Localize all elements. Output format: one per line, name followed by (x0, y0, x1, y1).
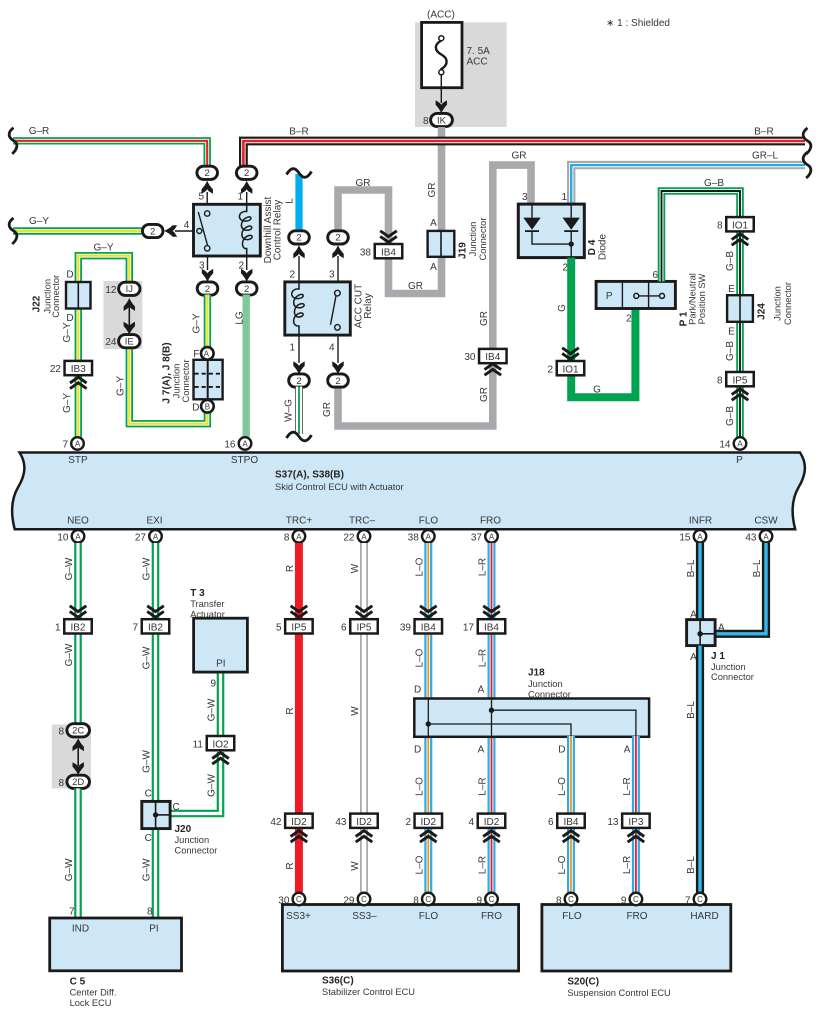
svg-text:Junction: Junction (468, 222, 478, 257)
wire G-B IO1 to J24 (736, 231, 744, 297)
svg-text:GR: GR (512, 151, 527, 162)
svg-text:W: W (350, 563, 361, 573)
label box 2 ID2 (405, 814, 442, 828)
svg-text:2C: 2C (72, 726, 84, 737)
wire B-L J1 down to S20 HARD (696, 646, 704, 893)
svg-text:PI: PI (149, 924, 158, 935)
svg-text:FRO: FRO (626, 911, 647, 922)
junction connector J22 (32, 270, 91, 325)
svg-text:16: 16 (224, 440, 236, 451)
svg-text:Diode: Diode (597, 234, 608, 261)
svg-text:L–R: L–R (478, 558, 489, 576)
svg-text:30: 30 (278, 895, 290, 906)
svg-text:27: 27 (135, 532, 147, 543)
svg-text:TRC–: TRC– (349, 516, 376, 527)
svg-text:12: 12 (105, 285, 117, 296)
svg-text:F: F (193, 349, 199, 360)
svg-text:∗ 1 : Shielded: ∗ 1 : Shielded (606, 18, 670, 29)
svg-text:S37(A), S38(B): S37(A), S38(B) (275, 469, 344, 480)
svg-text:GR: GR (479, 387, 490, 402)
svg-text:2: 2 (547, 364, 553, 375)
connector oval 2 (G-Y to relay pin 4) (142, 224, 163, 237)
svg-text:8: 8 (58, 726, 64, 737)
svg-text:D: D (66, 270, 73, 281)
svg-text:IO2: IO2 (212, 739, 229, 750)
svg-text:J20: J20 (175, 824, 192, 835)
chevron into 6 IP5 (356, 606, 373, 617)
svg-text:2: 2 (244, 284, 249, 295)
label box 13 IP3 (607, 814, 649, 828)
pin 29 C SS3- (343, 893, 370, 907)
pin 4 line of downhill relay (175, 230, 199, 232)
svg-text:FLO: FLO (562, 911, 582, 922)
connector oval IJ pin 12 (105, 282, 140, 296)
svg-text:P: P (736, 455, 743, 466)
arrow down to pin4 oval (332, 361, 343, 374)
svg-text:9: 9 (210, 679, 216, 690)
svg-text:J24: J24 (756, 303, 767, 320)
svg-text:L–O: L–O (414, 855, 425, 874)
wire G-Y left horizontal to oval 2 (13, 227, 143, 234)
svg-text:L–O: L–O (557, 855, 568, 874)
svg-text:CSW: CSW (754, 516, 778, 527)
svg-text:A: A (430, 218, 437, 229)
label box 8 IP5 (717, 372, 754, 386)
svg-text:A: A (75, 440, 81, 449)
connector oval IK pin 8 (423, 113, 452, 127)
wire G-W NEO column lower to C5 IND (74, 788, 82, 918)
svg-text:1: 1 (561, 192, 567, 203)
svg-text:7: 7 (69, 907, 75, 918)
svg-text:42: 42 (270, 817, 282, 828)
svg-text:W: W (350, 861, 361, 871)
chevron into 17 IB4 (483, 606, 500, 617)
svg-text:C: C (568, 895, 574, 904)
chevron into 13 IP3 (628, 831, 645, 842)
svg-text:G–W: G–W (207, 698, 218, 721)
svg-text:8: 8 (717, 375, 723, 386)
svg-text:B–R: B–R (289, 127, 308, 138)
label box 1 IB2 (55, 619, 92, 633)
svg-text:A: A (478, 744, 485, 755)
double arrow between 2C and 2D (73, 738, 84, 775)
wire G-Y from IJ up and left down into J22 (78, 256, 129, 284)
svg-text:9: 9 (476, 895, 482, 906)
svg-text:8: 8 (284, 532, 290, 543)
wire GR from ACC CUT relay pin4 to diode pin3 via 30 IB4 (338, 165, 531, 426)
transfer actuator T3 box (190, 588, 247, 672)
pin 9 C FRO S20 (621, 893, 642, 907)
svg-text:Control Relay: Control Relay (273, 200, 284, 261)
svg-text:IE: IE (125, 337, 134, 348)
arrow into oval 5-side (202, 181, 213, 194)
svg-text:ID2: ID2 (421, 817, 437, 828)
pin 30 C SS3+ (278, 893, 305, 907)
relay pin 2 lead (246, 256, 248, 270)
fuse element symbol (436, 41, 447, 70)
svg-text:38: 38 (408, 532, 420, 543)
svg-text:8: 8 (717, 220, 723, 231)
svg-text:IB2: IB2 (70, 623, 85, 634)
svg-text:17: 17 (463, 623, 475, 634)
label box 39 IB4 (400, 619, 442, 633)
svg-text:L–O: L–O (414, 648, 425, 667)
svg-text:3: 3 (329, 270, 335, 281)
svg-text:2: 2 (150, 226, 155, 237)
wire B-L INFR column upper (696, 543, 704, 621)
svg-text:2D: 2D (72, 777, 84, 788)
svg-text:G–Y: G–Y (29, 216, 49, 227)
pin 8 A TRC+ (284, 530, 305, 543)
svg-text:37: 37 (471, 532, 483, 543)
label box 8 IO1 (717, 217, 754, 231)
svg-text:G–Y: G–Y (62, 393, 73, 413)
svg-text:FLO: FLO (419, 516, 439, 527)
wire L-R S20 FRO column (632, 736, 640, 893)
svg-text:D: D (558, 744, 565, 755)
junction connector J20 (142, 789, 218, 856)
pin 37 A FRO (471, 530, 498, 543)
wire G-B IP5 to pin 14 (736, 385, 744, 438)
pin 1 lead (298, 335, 300, 363)
arrow into oval below pin 3 (202, 269, 213, 282)
wire GR-L horizontal from diode pin1 to right (571, 165, 805, 205)
svg-text:2: 2 (296, 376, 301, 387)
svg-text:39: 39 (400, 623, 412, 634)
wire G-Y relay pin3 down to J7 J8 (204, 295, 211, 349)
svg-text:2: 2 (296, 233, 301, 244)
svg-text:2: 2 (205, 168, 210, 179)
junction connector J1 (687, 620, 754, 682)
svg-text:A: A (624, 744, 631, 755)
svg-text:6: 6 (652, 270, 658, 281)
svg-text:G–B: G–B (725, 251, 736, 271)
diode D4 box (518, 204, 608, 260)
svg-text:L–O: L–O (557, 777, 568, 796)
svg-text:G–B: G–B (725, 406, 736, 426)
svg-text:B–L: B–L (752, 559, 763, 577)
svg-text:E: E (728, 284, 735, 295)
svg-text:A: A (204, 349, 210, 358)
wire G-W T3 to IO2 (217, 672, 225, 737)
svg-text:STPO: STPO (231, 455, 258, 466)
svg-text:G–B: G–B (704, 178, 724, 189)
wire G-R horizontal (13, 141, 207, 167)
svg-text:IP3: IP3 (628, 817, 643, 828)
pin 8 C FLO S36 (413, 893, 434, 907)
chevron into 42 ID2 (291, 831, 308, 842)
svg-text:NEO: NEO (67, 516, 89, 527)
label box 30 IB4 (464, 349, 506, 363)
arrow into oval 1-side (241, 181, 252, 194)
arrow up to pin2 oval (293, 245, 304, 258)
svg-text:J22: J22 (32, 295, 43, 312)
svg-text:Actuator: Actuator (190, 609, 225, 619)
svg-text:8: 8 (58, 778, 64, 789)
wire B-L CSW column into J1 (716, 543, 766, 634)
svg-text:L–R: L–R (478, 777, 489, 795)
junction connector J19 (428, 218, 488, 273)
svg-text:7: 7 (62, 440, 68, 451)
label box 2 IO1 (547, 361, 584, 375)
svg-text:W: W (350, 706, 361, 716)
svg-text:GR: GR (427, 183, 438, 198)
connector oval 2 at ACC CUT pin2 (289, 231, 310, 244)
label box 43 ID2 (335, 814, 377, 828)
svg-text:C: C (425, 895, 431, 904)
svg-text:C: C (633, 895, 639, 904)
connector oval 2 below relay pin 3 (197, 282, 218, 295)
pin 9 C FRO S36 (476, 893, 497, 907)
svg-text:G–W: G–W (64, 858, 75, 881)
arrow into oval 2 pointing left (164, 225, 177, 236)
wire W-G below pin1 oval (295, 387, 303, 435)
wire L blue into ACC CUT relay pin2 (295, 174, 302, 232)
svg-text:10: 10 (57, 532, 69, 543)
svg-text:D: D (66, 313, 73, 324)
relay pin 3 lead (207, 256, 209, 270)
svg-text:8: 8 (556, 895, 562, 906)
svg-text:D: D (414, 684, 421, 695)
svg-text:A: A (153, 533, 159, 542)
svg-text:A: A (426, 533, 432, 542)
connector oval 2 above relay pin 5 (197, 166, 218, 179)
shaded box around IJ IE (104, 281, 143, 349)
wire G-B from P1 pin6 up over to 8 IO1 then down to P pin14 (662, 191, 741, 281)
svg-text:L–O: L–O (414, 777, 425, 796)
pin 38 A FLO (408, 530, 435, 543)
svg-text:13: 13 (607, 817, 619, 828)
svg-text:C: C (145, 789, 152, 800)
svg-text:2: 2 (335, 233, 340, 244)
wire G-B J24 to IP5 (736, 321, 744, 373)
svg-text:Junction: Junction (773, 286, 783, 321)
wire G-W from J20 right to IO2 and T3 (170, 752, 221, 814)
svg-text:22: 22 (50, 364, 62, 375)
svg-text:2: 2 (405, 817, 411, 828)
svg-text:ID2: ID2 (356, 817, 372, 828)
svg-text:Connector: Connector (478, 218, 488, 261)
svg-text:G: G (593, 384, 601, 395)
squiggle L top end (287, 169, 312, 178)
double arrow between IJ and IE (124, 298, 135, 335)
svg-text:14: 14 (719, 440, 731, 451)
pin 15 A INFR (679, 530, 706, 543)
svg-text:Relay: Relay (363, 293, 374, 319)
svg-text:A: A (478, 684, 485, 695)
wire L-O FLO column upper (424, 543, 432, 700)
wire G-Y from J22 down to STP (75, 308, 82, 438)
svg-text:15: 15 (679, 532, 691, 543)
svg-text:A: A (361, 533, 367, 542)
svg-text:INFR: INFR (689, 516, 712, 527)
svg-text:T 3: T 3 (190, 588, 205, 599)
svg-text:G–Y: G–Y (192, 313, 203, 333)
pin 27 A EXI (135, 530, 162, 543)
pin circle B of J8 (201, 400, 214, 413)
pin 8 C FLO S20 (556, 893, 577, 907)
svg-text:Connector: Connector (175, 845, 218, 855)
pin 3 lead (337, 256, 339, 282)
label box 7 IB2 (132, 619, 169, 633)
wire fuse to IK (440, 75, 442, 103)
svg-text:1: 1 (55, 623, 61, 634)
svg-text:1: 1 (289, 343, 295, 354)
pin 14 A P (719, 437, 746, 450)
pin 22 A TRC- (343, 530, 370, 543)
svg-text:Connector: Connector (181, 360, 191, 403)
chevron into 39 IB4 (420, 606, 437, 617)
svg-text:L–R: L–R (622, 777, 633, 795)
svg-text:29: 29 (343, 895, 355, 906)
svg-text:6: 6 (341, 623, 347, 634)
svg-text:7. 5A: 7. 5A (467, 46, 491, 57)
svg-text:J 1: J 1 (711, 651, 725, 662)
junction connector J7(A) J8(B) (161, 342, 222, 413)
svg-text:IB4: IB4 (381, 247, 396, 258)
svg-text:Position SW: Position SW (697, 273, 707, 324)
svg-text:Junction: Junction (171, 364, 181, 399)
svg-text:STP: STP (68, 455, 88, 466)
svg-text:Junction: Junction (711, 662, 746, 672)
connector oval 2C pin 8 (58, 724, 89, 738)
wire G-Y loop J7J8-B down left and up to IE (129, 346, 207, 424)
svg-text:ID2: ID2 (291, 817, 307, 828)
svg-text:SS3+: SS3+ (286, 911, 311, 922)
connector oval 2D pin 8 (58, 775, 89, 789)
svg-text:A: A (763, 533, 769, 542)
svg-text:G–W: G–W (142, 750, 153, 773)
svg-text:Suspension Control ECU: Suspension Control ECU (567, 988, 670, 998)
svg-text:Lock ECU: Lock ECU (70, 998, 112, 1008)
svg-text:Center Diff.: Center Diff. (70, 988, 117, 998)
svg-text:11: 11 (193, 739, 204, 750)
svg-text:IB3: IB3 (71, 364, 86, 375)
connector oval IE pin 24 (105, 335, 140, 349)
label box 17 IB4 (463, 619, 505, 633)
svg-text:S36(C): S36(C) (322, 976, 354, 987)
park/neutral position switch P1 (596, 273, 707, 326)
svg-text:J18: J18 (528, 668, 545, 679)
svg-text:G–W: G–W (207, 774, 218, 797)
label box 11 IO2 (193, 736, 235, 750)
arrow into oval below pin 2 (241, 269, 252, 282)
svg-text:4: 4 (184, 220, 190, 231)
svg-text:A: A (430, 262, 437, 273)
svg-text:43: 43 (335, 817, 347, 828)
svg-text:Junction: Junction (175, 835, 210, 845)
svg-text:FRO: FRO (481, 911, 502, 922)
svg-text:7: 7 (132, 623, 138, 634)
label box 42 ID2 (270, 814, 312, 828)
svg-text:D: D (414, 744, 421, 755)
svg-text:Junction: Junction (528, 679, 563, 689)
svg-text:IND: IND (72, 924, 89, 935)
svg-text:ID2: ID2 (484, 817, 500, 828)
junction connector J18 (414, 668, 649, 737)
chevron into 22 IB3 (70, 377, 87, 388)
svg-text:24: 24 (105, 337, 117, 348)
svg-text:PI: PI (216, 659, 225, 670)
svg-text:HARD: HARD (690, 911, 718, 922)
svg-text:IO1: IO1 (732, 220, 749, 231)
pin 16 A STPO (224, 437, 251, 450)
chevron into 5 IP5 (291, 606, 308, 617)
svg-text:B–L: B–L (686, 559, 697, 577)
connector oval 2 below relay pin 2 (236, 282, 257, 295)
svg-text:GR: GR (356, 178, 371, 189)
svg-text:G–W: G–W (142, 557, 153, 580)
svg-text:SS3–: SS3– (352, 911, 377, 922)
svg-text:L–R: L–R (478, 649, 489, 667)
squiggle GR-L right end (803, 152, 811, 178)
connector oval 2 at ACC CUT pin3 (328, 231, 349, 244)
svg-text:(ACC): (ACC) (427, 10, 455, 21)
wire L-R FRO column lower (488, 736, 496, 893)
svg-text:G: G (557, 304, 568, 312)
svg-text:GR–L: GR–L (752, 151, 779, 162)
downhill assist control relay box (194, 196, 284, 263)
arrow into IK (436, 100, 447, 113)
chevron into 2 ID2 (420, 831, 437, 842)
svg-text:P: P (606, 291, 613, 302)
svg-text:C: C (489, 895, 495, 904)
svg-text:43: 43 (745, 532, 757, 543)
label box 22 IB3 (50, 361, 92, 375)
svg-text:22: 22 (343, 532, 355, 543)
svg-text:EXI: EXI (146, 516, 162, 527)
svg-text:2: 2 (626, 314, 632, 325)
wire B-R horizontal (243, 141, 805, 167)
svg-text:C: C (296, 895, 302, 904)
suspension control ECU S20 box (542, 905, 731, 999)
label box 38 IB4 (360, 244, 402, 258)
chevron into 8 IO1 (732, 234, 749, 245)
relay pin 5 lead (206, 192, 208, 204)
svg-text:IJ: IJ (126, 284, 134, 295)
svg-text:A: A (242, 440, 248, 449)
wire G from diode pin2 to IO1 and P1 pin2 (571, 258, 635, 398)
svg-text:L–R: L–R (622, 856, 633, 874)
svg-text:2: 2 (289, 270, 295, 281)
wire G-W EXI column through J20 to C5 PI (152, 543, 160, 918)
svg-text:G–Y: G–Y (62, 322, 73, 342)
wire GR from downhill-relay-side oval to 38 IB4 and J19 (338, 190, 389, 245)
svg-text:IP5: IP5 (732, 375, 747, 386)
chevron into 43 ID2 (356, 831, 373, 842)
svg-text:IB4: IB4 (484, 623, 499, 634)
svg-text:R: R (285, 862, 296, 869)
svg-text:A: A (737, 440, 743, 449)
svg-text:GR: GR (408, 281, 423, 292)
svg-text:C: C (145, 833, 152, 844)
relay pin 1 lead (246, 192, 248, 204)
squiggle G-R left end (9, 128, 17, 154)
svg-text:TRC+: TRC+ (286, 516, 313, 527)
fuse 7.5A ACC box (422, 22, 462, 87)
label box 6 IB4 (548, 814, 585, 828)
svg-text:B: B (205, 402, 210, 411)
svg-text:Stabilizer Control ECU: Stabilizer Control ECU (322, 987, 415, 997)
pin 4 lead (337, 335, 339, 363)
svg-text:2: 2 (244, 168, 249, 179)
svg-text:30: 30 (464, 352, 476, 363)
svg-text:C: C (173, 802, 180, 813)
svg-text:Connector: Connector (783, 282, 793, 325)
skid control ECU band S37(A) S38(B) (12, 453, 805, 530)
svg-text:R: R (285, 565, 296, 572)
svg-text:38: 38 (360, 247, 372, 258)
